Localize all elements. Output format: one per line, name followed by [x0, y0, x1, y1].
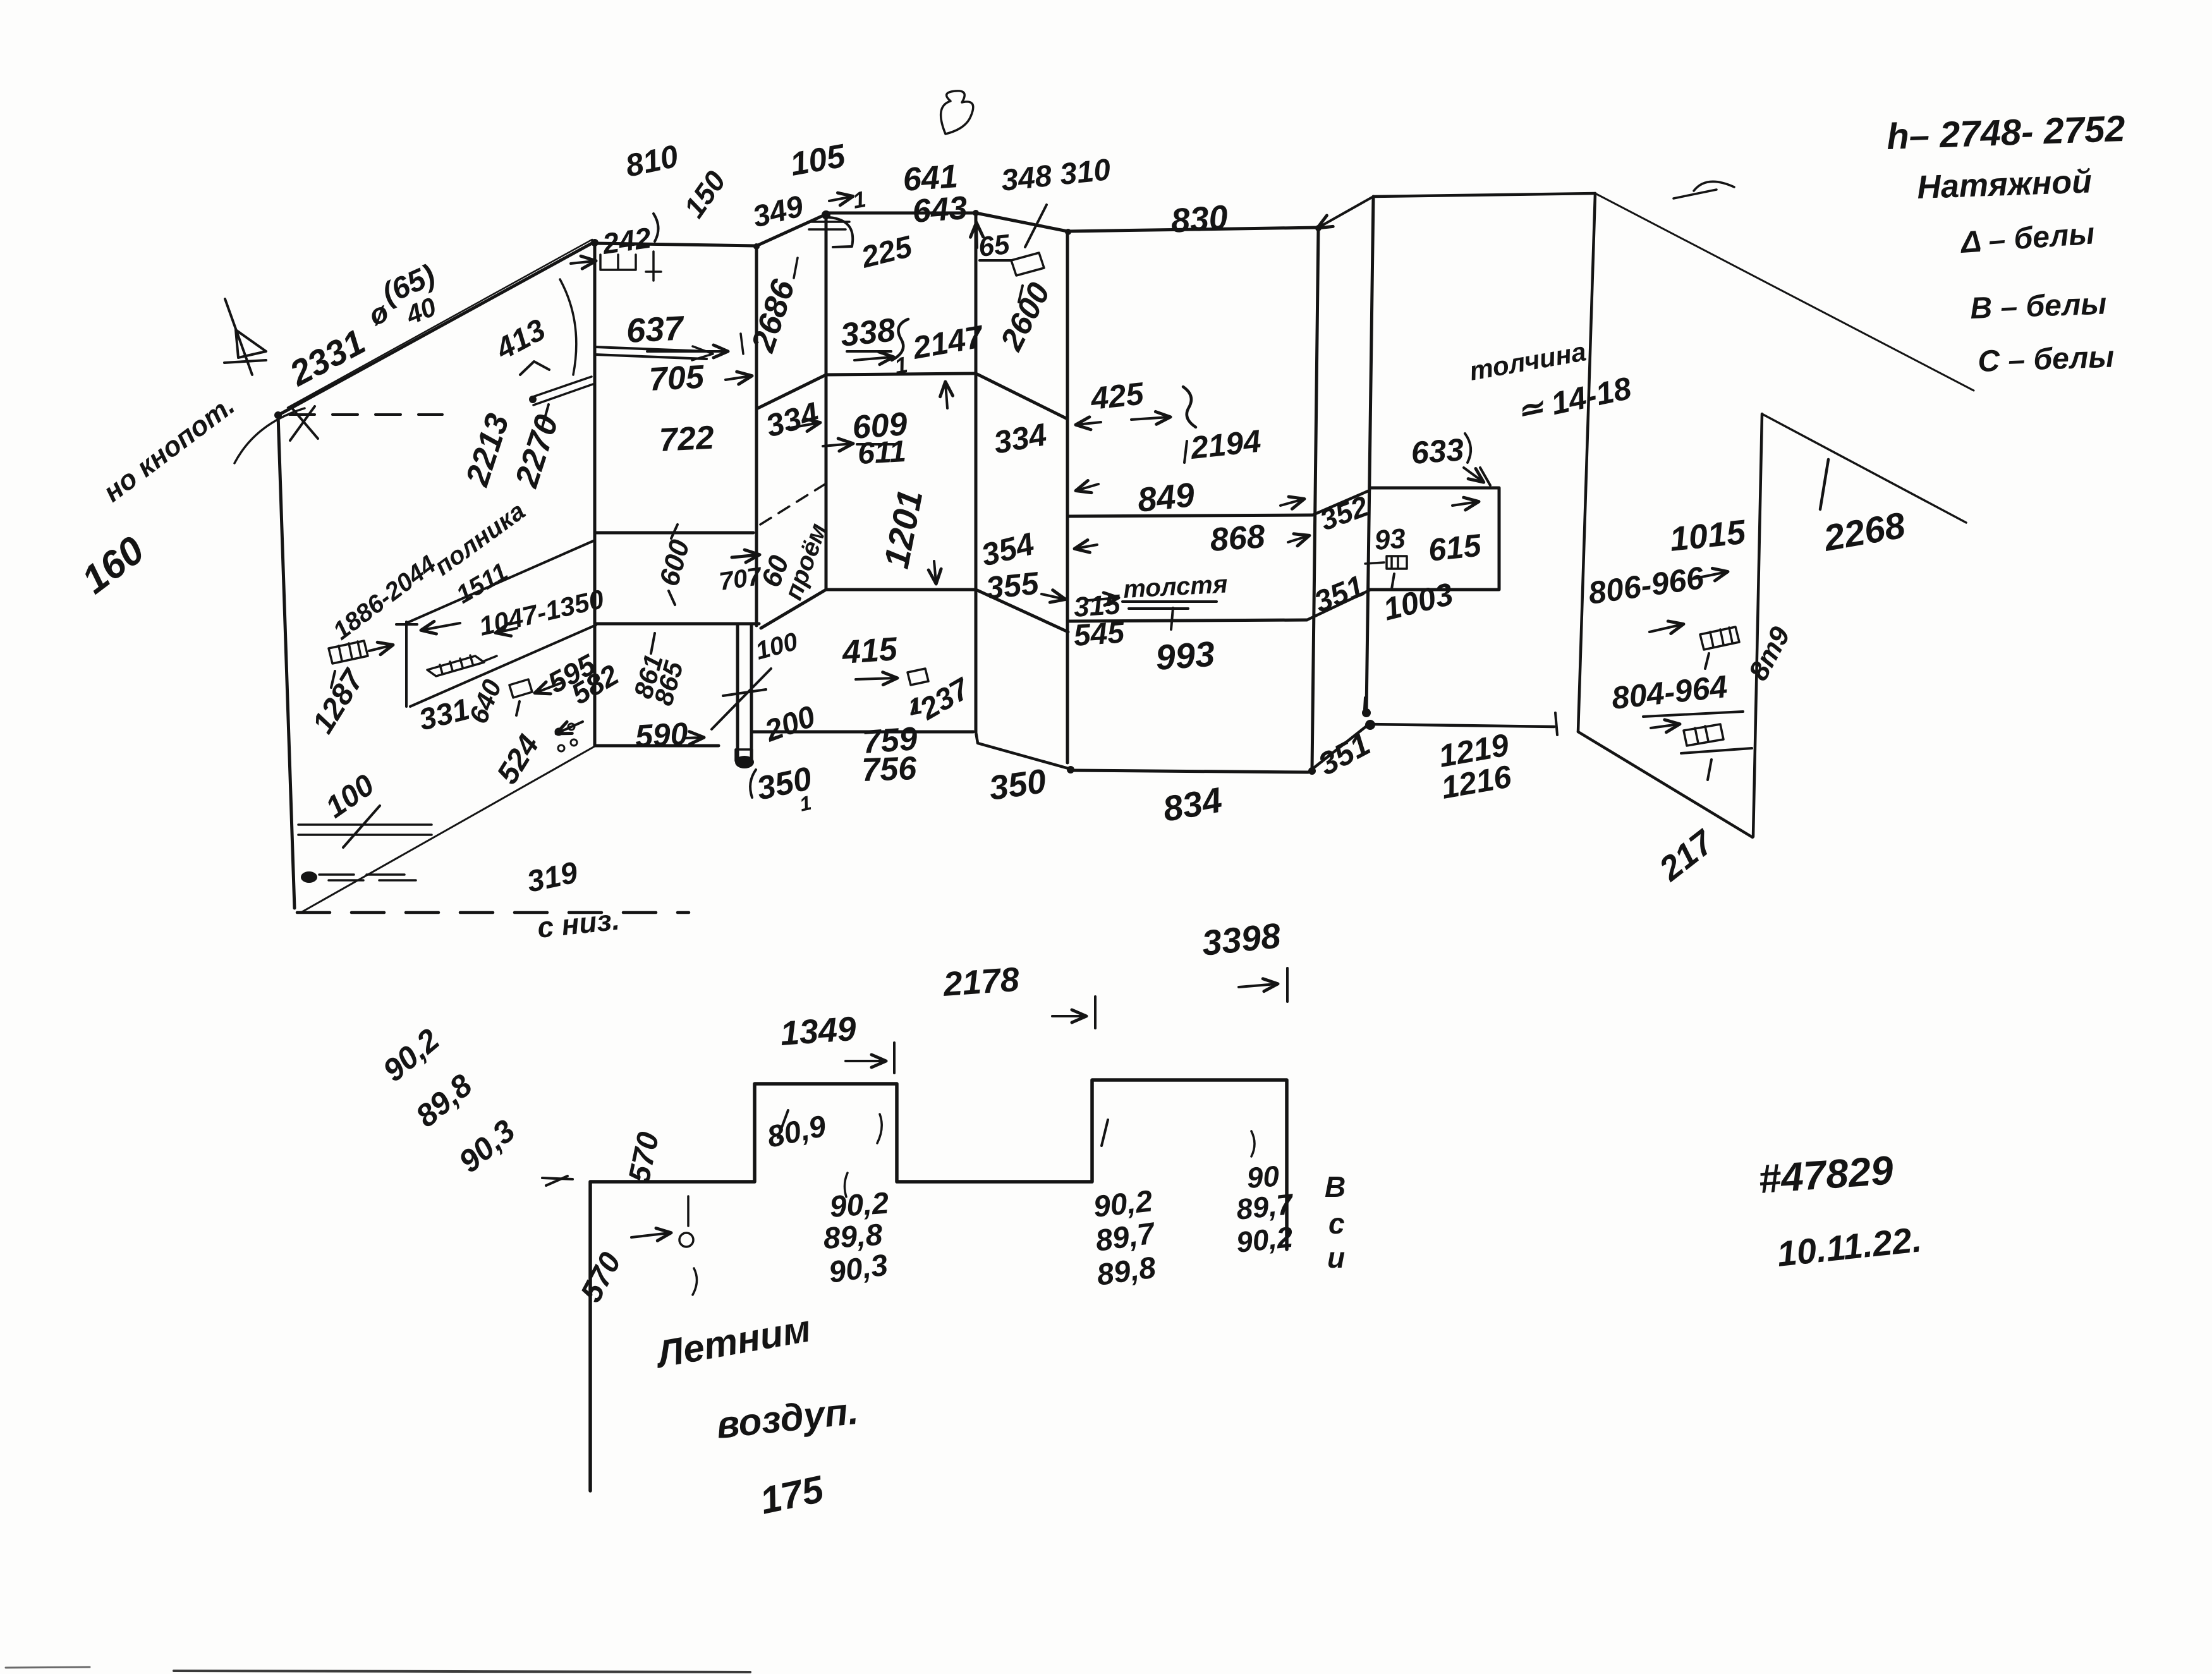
dashed door top slant: [760, 482, 829, 525]
arrow left of 868: [1076, 545, 1097, 549]
paren before 350: [750, 770, 756, 798]
plan circle mark: [679, 1233, 693, 1247]
line y983: [1068, 620, 1307, 621]
svg-text:93: 93: [1373, 523, 1406, 556]
wall vertical F: [1066, 231, 1069, 763]
tick 993: [1171, 608, 1173, 629]
svg-text:993: 993: [1154, 634, 1216, 677]
svg-text:615: 615: [1426, 527, 1483, 568]
corner arc left of A: [234, 408, 305, 463]
hatched rect left 1287: [329, 641, 368, 664]
tick below 804: [1708, 760, 1711, 780]
plan paren mark: [693, 1268, 697, 1295]
shelf slant upper: [406, 540, 595, 623]
dot bottom x2078: [1308, 767, 1316, 775]
small rect 640: [509, 679, 532, 698]
line 834: [1071, 770, 1308, 772]
svg-text:2194: 2194: [1188, 423, 1262, 466]
slash mark 1 near 2268: [1820, 459, 1828, 509]
line 849: [1068, 515, 1313, 516]
dot on 413 line: [529, 396, 537, 403]
extra stroke 633 arrow: [1480, 468, 1490, 485]
plan slash marks: [778, 1110, 1108, 1146]
svg-text:849: 849: [1136, 476, 1196, 519]
bottom edge left-centre panel: [595, 744, 719, 748]
small rect 415: [908, 669, 928, 685]
divider line y843: [596, 531, 753, 535]
staple symbol near 242: [600, 255, 636, 270]
arrow inside 615 box: [1452, 502, 1478, 506]
plan leader dash: [542, 1178, 573, 1179]
divider line y986: [596, 622, 759, 626]
radiator slash: [712, 669, 771, 729]
arrow 609: [823, 444, 852, 446]
arrow 595: [536, 682, 562, 693]
arrow 425 left: [1077, 422, 1101, 425]
left wall vertical edge: [278, 415, 295, 908]
svg-text:толстя: толстя: [1122, 570, 1228, 603]
svg-text:425: 425: [1088, 375, 1146, 416]
plan arrow 570: [631, 1233, 670, 1237]
scan artifact line left: [6, 1667, 90, 1668]
line H2 bottom of 1201: [826, 588, 976, 591]
tick end of 1219: [1555, 713, 1557, 735]
slant E-F top: [976, 213, 1067, 231]
top edge 641: [826, 212, 976, 215]
radiator bottom blob: [735, 756, 754, 768]
door symbol arc: [829, 217, 853, 247]
tick 861: [651, 633, 655, 653]
wall vertical E: [975, 212, 978, 732]
svg-text:350: 350: [987, 762, 1048, 808]
slant H2 left: [761, 590, 826, 628]
svg-text:611: 611: [857, 435, 907, 471]
dash-dot lower rail: [319, 875, 416, 880]
arrow at V1 y880: [732, 555, 758, 557]
line 1219: [1369, 724, 1554, 727]
dim arrow 2178: [1052, 1015, 1085, 1017]
wall vertical V1: [755, 246, 758, 626]
hatched rect 804: [1684, 724, 1723, 746]
big unfold diagonal C: [1595, 193, 1974, 391]
line H1 under 338: [826, 373, 976, 375]
arrow 415: [856, 678, 896, 679]
arrow 1047-1350: [497, 628, 517, 633]
arrow at V1 y597: [726, 376, 751, 380]
dim line 637: [647, 350, 727, 353]
dashed floor line at corner A: [289, 413, 442, 416]
brace 425: [1183, 387, 1196, 427]
svg-text:415: 415: [841, 631, 899, 671]
c glyph on diagonal: [1674, 181, 1734, 198]
arrow to toltsya: [1088, 598, 1117, 600]
slant G-H: [1318, 197, 1373, 227]
pennant symbol triangle: [236, 330, 266, 358]
X mark at corner A: [290, 406, 318, 440]
slant V1-V2 349: [757, 214, 826, 246]
underline 65: [980, 259, 1011, 262]
arrow 425 right: [1131, 417, 1169, 420]
slash near 348: [1025, 205, 1047, 247]
paren 633: [1465, 434, 1471, 463]
tick below hatched rect: [331, 671, 335, 688]
tick below hatched rect right: [1705, 653, 1709, 669]
shelf bracket vertical: [405, 622, 408, 707]
svg-text:355: 355: [984, 565, 1041, 606]
dot on line 1219: [1365, 720, 1375, 730]
tick below 93: [1392, 574, 1394, 589]
svg-text:В – белы: В – белы: [1970, 287, 2108, 325]
small unfold diagonal 2268: [1762, 414, 1966, 523]
underline toltsya: [1122, 602, 1217, 609]
svg-text:633: 633: [1410, 432, 1465, 471]
svg-text:и: и: [1327, 1241, 1345, 1274]
door symbol double lines: [809, 222, 849, 229]
svg-text:В: В: [1325, 1170, 1346, 1203]
paren after 242: [653, 214, 659, 241]
svg-text:2178: 2178: [942, 961, 1021, 1004]
E bottom tail slant 350: [976, 732, 1071, 769]
svg-text:#47829: #47829: [1757, 1147, 1895, 1202]
svg-text:643: 643: [911, 190, 969, 230]
wall vertical V2: [825, 214, 828, 590]
staple tick: [646, 252, 661, 281]
arrow at V2 y672: [787, 423, 819, 428]
double line 413: [531, 377, 593, 405]
double rail lines 100: [298, 825, 432, 835]
tick pair 600 lower: [669, 591, 675, 605]
tick 415: [912, 699, 916, 714]
bottom line 759: [753, 731, 973, 734]
dash to rect 93: [1365, 562, 1384, 564]
underline 338: [847, 350, 891, 353]
staple arrow: [571, 261, 595, 264]
plan tick 570: [687, 1196, 690, 1226]
tick above 2270: [542, 404, 549, 427]
slant H1 right 334: [976, 373, 1067, 419]
hatched rect right wall: [1700, 627, 1739, 650]
tick pair 600 upper: [671, 525, 678, 538]
slant 352: [1313, 490, 1370, 515]
plan outline bottom drawing: [590, 1080, 1287, 1491]
bottom dashed line: [297, 911, 689, 914]
ledge arrow tip: [692, 346, 713, 360]
arrow right of 849: [1280, 499, 1303, 506]
bottom diagonal 217: [1578, 732, 1753, 837]
slant H1 left 334: [757, 375, 826, 409]
tick below rect 65: [1019, 286, 1023, 302]
thin diagonal of left wall: [301, 746, 595, 913]
rotated rect near 65: [1011, 253, 1044, 276]
wall vertical x2078: [1312, 227, 1318, 770]
pennant symbol crossbar: [224, 360, 266, 363]
top edge 830: [1067, 227, 1318, 231]
svg-text:3398: 3398: [1200, 915, 1283, 963]
shelf slant lower: [410, 625, 596, 707]
tick 1349: [893, 1043, 896, 1073]
arrow 590: [684, 737, 703, 738]
svg-text:h– 2748- 2752: h– 2748- 2752: [1886, 108, 2125, 157]
slant 351 lower: [1308, 724, 1369, 772]
svg-text:1349: 1349: [779, 1010, 858, 1053]
svg-text:с: с: [1328, 1207, 1345, 1240]
wall slope thin ruler line: [288, 240, 592, 408]
right angle mark under 413: [520, 361, 549, 375]
rect 93: [1387, 556, 1407, 569]
tick 2686: [794, 258, 798, 278]
arrow 582: [557, 722, 583, 733]
arrow near 105: [829, 197, 852, 201]
svg-text:722: 722: [659, 420, 715, 459]
svg-text:590: 590: [635, 716, 689, 754]
svg-text:637: 637: [625, 309, 686, 350]
svg-text:705: 705: [648, 358, 706, 398]
arrow-down 1201: [934, 561, 936, 583]
small circles oo: [556, 724, 577, 751]
slant H2 right 355: [976, 590, 1068, 632]
tick after 637: [741, 334, 743, 354]
slash through rails: [343, 806, 380, 847]
corner arrow 633: [1464, 468, 1483, 482]
svg-text:756: 756: [861, 750, 918, 789]
svg-text:338: 338: [839, 312, 897, 354]
underline 804-964: [1643, 712, 1743, 717]
wall vertical x2170: [1366, 197, 1373, 711]
arrow 355 slant: [1042, 594, 1064, 599]
pennant symbol staff: [225, 299, 252, 375]
dot bottom x2170: [1362, 708, 1371, 717]
arrow up at E top: [976, 224, 977, 248]
svg-text:С – белы: С – белы: [1978, 340, 2115, 379]
arc right of 413: [560, 279, 576, 375]
radiator bottom square: [736, 749, 752, 761]
svg-text:545: 545: [1073, 616, 1126, 653]
arrow left of 849: [1077, 484, 1098, 490]
wall slope line 2331: [278, 242, 594, 415]
svg-text:868: 868: [1209, 518, 1267, 559]
dash after 90,3 left plan: [546, 1176, 568, 1186]
dim arrow 3398: [1239, 984, 1277, 987]
top edge panel B: [595, 243, 757, 246]
radiator tick: [723, 689, 766, 696]
svg-text:90,2: 90,2: [1235, 1220, 1295, 1259]
svg-text:65: 65: [977, 229, 1011, 263]
slant 351 upper: [1307, 590, 1370, 620]
arrow 1511: [422, 623, 460, 630]
tick 2178: [1094, 997, 1097, 1028]
blob on lower rail: [301, 871, 317, 883]
svg-text:1015: 1015: [1668, 513, 1748, 559]
niche box 615: [1370, 488, 1499, 590]
arrow-up H1: [945, 383, 947, 408]
tick below small rect: [516, 701, 520, 715]
arrow 806-966: [1692, 572, 1727, 579]
top edge H-I: [1373, 193, 1595, 197]
shelf hatched symbol: [427, 655, 497, 676]
ledge double line 705: [595, 347, 707, 359]
dim arrow 1349: [846, 1060, 885, 1062]
svg-text:830: 830: [1170, 198, 1229, 240]
svg-text:Натяжной: Натяжной: [1916, 163, 2092, 206]
tick 3398: [1286, 968, 1289, 1002]
arrow 804: [1651, 724, 1679, 728]
underline 609: [857, 443, 894, 446]
squiggle B above 641: [941, 91, 973, 134]
underline2 804: [1681, 748, 1752, 753]
right wall vertical: [1753, 414, 1762, 837]
corner ink dots: [274, 210, 1322, 773]
radiator pipes: [738, 626, 751, 762]
tick above dot: [1364, 698, 1365, 709]
arrow right of 868: [1288, 536, 1308, 542]
arrow to hatched rect right: [1650, 624, 1682, 632]
scan artifact line bottom: [174, 1671, 750, 1672]
arrow 338: [854, 357, 892, 360]
arrow right of hatched rect: [369, 645, 392, 651]
svg-text:242: 242: [600, 221, 653, 260]
wall vertical C right: [1578, 193, 1595, 732]
tick 2194: [1184, 441, 1187, 463]
wall vertical B: [593, 242, 597, 746]
plan paren marks: [844, 1114, 1255, 1197]
shelf bracket tick: [396, 623, 417, 626]
brace after 338: [892, 319, 908, 360]
